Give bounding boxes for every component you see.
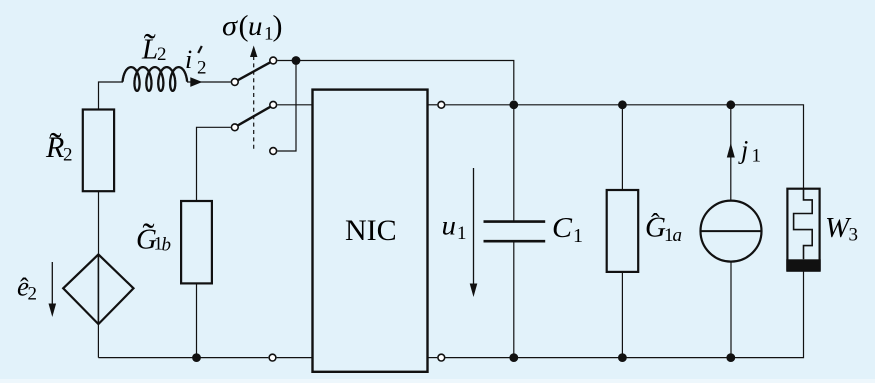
label G~1b bbox=[136, 216, 171, 256]
svg-text:C: C bbox=[552, 212, 573, 244]
junction dot G1a/top rail bbox=[618, 100, 627, 109]
current source circle bbox=[701, 201, 762, 262]
wire: rail to capacitor bbox=[513, 105, 515, 221]
capacitor C1 bottom plate bbox=[484, 240, 546, 243]
junction dot j1/top rail bbox=[726, 100, 735, 109]
bottom rail left segment bbox=[98, 357, 268, 359]
memristor W3 meander bbox=[794, 189, 813, 260]
switch S1 pivot contact bbox=[231, 79, 238, 86]
label sigma(u1) bbox=[222, 10, 283, 45]
switch S2 blade bbox=[238, 107, 270, 126]
svg-text:2: 2 bbox=[63, 145, 73, 166]
wire: throw A to node A bbox=[277, 60, 296, 62]
wire: rail to G1a bbox=[621, 105, 623, 190]
svg-text:i: i bbox=[185, 45, 192, 74]
svg-text:): ) bbox=[273, 10, 283, 43]
switch S1 upper throw contact bbox=[270, 57, 277, 64]
junction dot cap/top rail bbox=[509, 100, 518, 109]
label i2' bbox=[185, 45, 207, 79]
switch S2 lower throw contact bbox=[270, 148, 277, 155]
label j1 bbox=[738, 136, 761, 167]
svg-text:1: 1 bbox=[752, 146, 762, 167]
svg-text:1: 1 bbox=[457, 223, 467, 244]
label R~2 bbox=[45, 125, 73, 166]
wire: source to bottom rail bbox=[730, 262, 732, 358]
svg-text:(: ( bbox=[239, 10, 249, 43]
current arrow i2' bbox=[190, 77, 202, 87]
svg-text:a: a bbox=[673, 225, 683, 246]
capacitor C1 top plate bbox=[484, 220, 546, 223]
junction dot G1a/bottom rail bbox=[618, 353, 627, 362]
wire: R2 bottom to diamond bbox=[98, 191, 100, 254]
svg-text:u: u bbox=[248, 11, 263, 41]
controlled source e2 diamond bbox=[63, 254, 133, 324]
resistor G1a bbox=[607, 190, 639, 272]
svg-text:˜: ˜ bbox=[50, 125, 62, 165]
svg-text:2: 2 bbox=[157, 44, 167, 65]
wire: capacitor to bottom rail bbox=[513, 241, 515, 357]
shared middle throw contact bbox=[270, 101, 277, 108]
wire: switch S2 pivot to G1b bbox=[197, 127, 231, 201]
svg-text:σ: σ bbox=[222, 11, 238, 42]
label e^2 bbox=[17, 272, 37, 305]
label G^1a bbox=[645, 209, 682, 247]
junction dot cap/bottom rail bbox=[509, 353, 518, 362]
memristor W3 bar bbox=[786, 259, 820, 270]
diamond internal line bbox=[97, 254, 99, 324]
current source bar bbox=[701, 230, 762, 232]
svg-text:3: 3 bbox=[849, 225, 859, 246]
wire: G1a to bottom rail bbox=[621, 272, 623, 358]
resistor G1b bbox=[181, 201, 212, 283]
svg-text:2: 2 bbox=[28, 284, 38, 305]
node A junction dot bbox=[292, 56, 301, 65]
top rail bbox=[445, 105, 803, 189]
wire: rail to current source bbox=[730, 105, 732, 201]
j1 current arrow bbox=[727, 143, 735, 158]
wire: node A to top-right corner down to rail bbox=[296, 61, 514, 101]
dashed-line arrowhead bbox=[250, 46, 257, 58]
NIC box bbox=[313, 90, 428, 372]
wire: node A down to lower throw contact bbox=[277, 61, 296, 152]
wire: diamond bottom to bottom rail bbox=[97, 324, 99, 358]
switch S2 pivot contact bbox=[231, 124, 238, 131]
label u1 bbox=[442, 211, 467, 245]
svg-text:1: 1 bbox=[573, 225, 583, 247]
junction dot j1/bottom rail bbox=[726, 353, 735, 362]
inductor L2 bbox=[123, 67, 188, 91]
NIC right upper terminal bbox=[438, 101, 445, 108]
svg-text:˜: ˜ bbox=[144, 26, 156, 66]
svg-text:NIC: NIC bbox=[345, 214, 397, 247]
switch S1 blade bbox=[238, 62, 270, 80]
wire: NIC box to right upper terminal bbox=[428, 104, 437, 106]
wire: NIC box to bottom-right terminal bbox=[428, 357, 437, 359]
resistor R2 bbox=[83, 110, 114, 192]
dashed control line sigma(u1) bbox=[253, 56, 255, 149]
wire: middle contact to NIC left upper terminal bbox=[277, 104, 312, 106]
label C1 bbox=[552, 212, 583, 247]
NIC bottom-right terminal bbox=[438, 354, 445, 361]
NIC bottom-left terminal bbox=[269, 354, 276, 361]
svg-text:2: 2 bbox=[197, 58, 207, 79]
wire: inductor to switch 1 bbox=[187, 81, 231, 83]
e2 reference arrow bbox=[51, 262, 53, 305]
svg-text:ˆ: ˆ bbox=[651, 209, 660, 238]
memristor W3 body bbox=[787, 189, 819, 271]
label W3 bbox=[825, 212, 858, 246]
u1 voltage arrow bbox=[473, 168, 475, 285]
label L~2 bbox=[141, 26, 167, 66]
svg-text:b: b bbox=[162, 235, 172, 256]
wire: terminal to NIC box bbox=[277, 357, 312, 359]
wire: G1b bottom to rail bbox=[196, 283, 198, 357]
junction dot G1b/rail bbox=[192, 353, 201, 362]
wire: R2 top to inductor bbox=[99, 82, 124, 110]
svg-text:u: u bbox=[442, 211, 457, 241]
bottom rail right segment bbox=[445, 271, 803, 358]
